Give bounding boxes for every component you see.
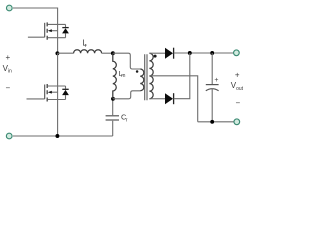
transistor M2 (lower MOSFET)	[27, 53, 66, 136]
wire node B to primary corner	[113, 53, 140, 69]
node cap bottom	[210, 120, 214, 124]
M1 channel dashes	[46, 22, 48, 39]
body lead	[51, 91, 58, 93]
diode D2 (bottom rectifier)	[165, 93, 173, 104]
node cap top	[210, 51, 214, 55]
M1 body diode	[65, 24, 67, 37]
output terminal bottom-right	[234, 119, 240, 125]
svg-text:+: +	[214, 77, 218, 84]
M2 body diode	[65, 86, 67, 100]
svg-text:r: r	[126, 117, 128, 123]
svg-text:m: m	[121, 73, 125, 79]
node B (top of Lm)	[111, 51, 115, 55]
transistor M1 (upper MOSFET)	[28, 24, 66, 53]
wire mid rail left segment	[58, 52, 74, 54]
diode D1 (top rectifier)	[165, 48, 173, 59]
capacitor Cr	[112, 121, 114, 136]
M2 channel dashes	[46, 84, 48, 102]
M2 gate bar	[44, 85, 46, 99]
primary polarity dot	[136, 70, 139, 73]
node on bottom rail	[55, 134, 59, 138]
M2 body arrow	[48, 91, 52, 94]
drain lead	[48, 85, 66, 87]
transformer core	[145, 54, 147, 100]
transformer primary winding	[140, 69, 144, 91]
wire output top rail	[174, 52, 234, 54]
source lead	[48, 99, 66, 101]
secondary polarity dot	[154, 55, 157, 58]
capacitor Cout	[211, 53, 213, 84]
wire output bottom rail	[198, 121, 234, 123]
wire secondary bottom to D2	[149, 98, 165, 100]
body lead	[51, 30, 58, 32]
transformer secondary winding	[149, 53, 153, 98]
gate stub	[28, 36, 45, 38]
inductor Lm (magnetizing)	[113, 53, 117, 99]
vertical drain to node / source to rail	[57, 53, 59, 136]
node C (bottom of Lm)	[111, 97, 115, 101]
svg-text:+: +	[235, 70, 240, 79]
inductor Lr	[74, 50, 102, 53]
wire secondary center tap	[149, 76, 197, 122]
right vertical (drain-source bus)	[57, 24, 59, 53]
svg-text:−: −	[236, 99, 241, 108]
svg-text:−: −	[6, 83, 11, 92]
output terminal top-right	[234, 50, 240, 56]
wire mid rail right segment	[102, 52, 113, 54]
drain lead	[48, 23, 66, 25]
M1 body arrow	[48, 29, 52, 32]
wire secondary top to D1	[149, 52, 165, 54]
wire bottom-left rail	[13, 135, 113, 137]
source lead	[48, 37, 66, 39]
svg-text:out: out	[236, 86, 244, 92]
bottom-left terminal	[6, 133, 12, 139]
svg-text:+: +	[6, 53, 11, 62]
wire top rail from terminal to M1 drain	[13, 8, 58, 24]
wire primary bottom lead	[113, 91, 140, 99]
svg-text:in: in	[8, 69, 12, 75]
wire D2 cathode up to rail	[174, 53, 190, 99]
node A (left mid node)	[55, 51, 59, 55]
gate stub	[27, 98, 45, 100]
node D1/D2 join	[188, 51, 192, 55]
M1 gate bar	[44, 23, 46, 37]
input terminal top-left	[6, 5, 12, 11]
